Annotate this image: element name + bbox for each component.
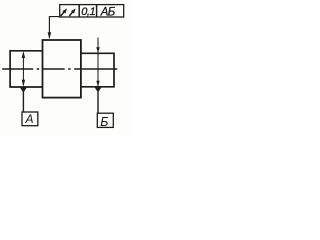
shaft right journal outline [81,53,114,87]
leader from frame to middle cylinder [49,17,59,38]
shaft middle section outline [43,40,81,98]
leader arrowhead [48,32,52,39]
centerline (axis) [2,68,117,70]
feature control frame [60,5,124,17]
datum triangle Б [94,87,101,93]
datum frame А [22,112,38,126]
datum leader А [22,92,24,112]
svg-text:АБ: АБ [100,6,116,18]
svg-text:Б: Б [100,115,108,129]
datum frame Б [97,113,113,127]
svg-text:0,1: 0,1 [81,6,95,18]
shaft left journal outline [10,51,42,87]
datum leader Б [97,92,99,113]
left journal dimension line [22,51,25,87]
right journal dimension line with outside arrow [96,38,100,87]
datum triangle А [20,87,27,93]
total radial runout symbol (two arrows) [61,9,76,17]
svg-text:А: А [24,112,33,126]
